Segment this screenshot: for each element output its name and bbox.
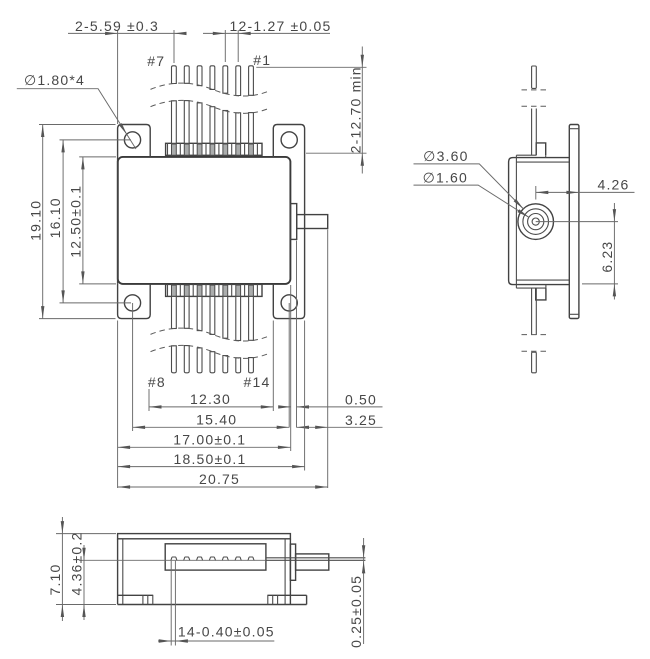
side flange step bottom xyxy=(569,313,579,315)
fiber ferrule xyxy=(297,215,328,229)
top break line 2 xyxy=(151,100,271,113)
side top pin tip xyxy=(532,66,537,88)
front foot lines left xyxy=(143,595,153,604)
side top pin break dashes xyxy=(522,90,548,106)
dim 4.36 +-0.2 xyxy=(69,532,86,621)
front snout xyxy=(290,544,295,580)
side lid edge line xyxy=(515,155,517,288)
front pin tips xyxy=(171,557,255,560)
front ferrule xyxy=(296,554,329,570)
dim 19.10 xyxy=(27,125,115,319)
svg-text:15.40: 15.40 xyxy=(196,412,237,428)
label diameter 1.60 xyxy=(414,169,530,218)
bottom break line 2 xyxy=(151,345,271,358)
dim 4.26 xyxy=(536,176,635,199)
top shoulder dividers xyxy=(168,143,258,155)
front flange bottom line xyxy=(118,604,307,606)
fiber exit center circle xyxy=(532,218,539,225)
svg-text:14-0.40±0.05: 14-0.40±0.05 xyxy=(178,623,275,639)
svg-text:6.23: 6.23 xyxy=(599,241,615,273)
svg-text:#1: #1 xyxy=(253,52,271,68)
top pins lower segments xyxy=(172,101,254,144)
label hole diameter 1.80*4 xyxy=(17,72,136,149)
svg-text:4.36±0.2: 4.36±0.2 xyxy=(69,532,85,596)
side top pin lower segment xyxy=(532,109,537,156)
svg-text:#7: #7 xyxy=(147,53,165,69)
dim 7.10 xyxy=(47,517,116,621)
svg-text:12.50±0.1: 12.50±0.1 xyxy=(67,185,83,258)
top pin shoulder xyxy=(166,143,262,155)
svg-text:20.75: 20.75 xyxy=(199,471,240,487)
front body outer sides xyxy=(118,539,291,605)
fiber exit circle d1.60 xyxy=(528,214,544,230)
svg-text:0.50: 0.50 xyxy=(345,391,377,407)
flange ear bottom-left xyxy=(118,284,151,319)
svg-text:2-12.70 min: 2-12.70 min xyxy=(348,66,364,153)
bottom pin shoulder xyxy=(166,284,262,296)
dim 2-12.70 min xyxy=(256,47,366,174)
dim 17.00 +-0.1 xyxy=(118,321,291,489)
svg-text:4.26: 4.26 xyxy=(597,176,629,192)
dim 14-0.40 +-0.05 xyxy=(158,561,275,646)
bottom pins lower segments xyxy=(172,346,254,373)
svg-text:2-5.59 ±0.3: 2-5.59 ±0.3 xyxy=(75,18,159,34)
side flange step top xyxy=(569,128,579,130)
dim 0.50 xyxy=(278,241,382,452)
svg-text:19.10: 19.10 xyxy=(27,200,43,241)
top shoulder pin bars xyxy=(172,144,254,155)
mounting hole bottom-left xyxy=(124,295,140,311)
fiber exit outer circle xyxy=(518,204,554,240)
mounting hole top-right xyxy=(281,132,297,148)
side bottom pin break dashes xyxy=(522,335,548,352)
dim 16.10 xyxy=(47,140,131,303)
front foot lines right xyxy=(268,595,278,604)
top pins upper segments xyxy=(172,66,254,96)
svg-text:#8: #8 xyxy=(148,374,166,390)
front flange top line xyxy=(118,594,307,596)
dim 18.50 +-0.1 xyxy=(118,321,305,471)
dim 12.50 +-0.1 xyxy=(67,157,116,284)
dim 6.23 xyxy=(536,203,618,300)
side body outline xyxy=(509,158,570,285)
side bottom pin tip xyxy=(532,352,537,373)
bottom pins upper segments xyxy=(172,296,254,340)
dim 3.25 xyxy=(297,230,383,489)
svg-text:∅3.60: ∅3.60 xyxy=(423,148,468,164)
top break line 1 xyxy=(151,83,271,96)
svg-text:3.25: 3.25 xyxy=(345,412,377,428)
dim 12-1.27 +-0.05 xyxy=(203,18,331,62)
dim 0.25 +-0.05 xyxy=(348,538,365,648)
front pin seat line xyxy=(79,559,266,561)
bottom shoulder dividers xyxy=(168,284,258,296)
mounting hole bottom-right xyxy=(281,295,297,311)
svg-text:12.30: 12.30 xyxy=(190,391,231,407)
flange ear top-left xyxy=(118,125,151,158)
fiber lines xyxy=(266,558,366,561)
front lid band xyxy=(118,534,291,539)
svg-text:12-1.27 ±0.05: 12-1.27 ±0.05 xyxy=(230,18,332,34)
bottom break line 1 xyxy=(151,328,271,341)
fiber snout xyxy=(290,204,296,240)
svg-text:∅1.80*4: ∅1.80*4 xyxy=(24,72,85,88)
dim 20.75 xyxy=(118,471,328,489)
mounting hole top-left xyxy=(124,132,140,148)
side top shoulder notch xyxy=(536,143,546,155)
front flange right end xyxy=(306,595,308,604)
dim 15.40 xyxy=(133,303,290,431)
front body inner sides xyxy=(123,539,285,605)
side bottom pin upper segment xyxy=(532,288,537,335)
label diameter 3.60 xyxy=(414,148,525,210)
lid outline xyxy=(118,157,291,284)
flange right side with ears xyxy=(273,125,304,319)
front pin recess xyxy=(165,544,266,570)
dim 2-5.59 +-0.3 xyxy=(68,18,187,124)
svg-text:0.25±0.05: 0.25±0.05 xyxy=(348,575,364,648)
svg-text:16.10: 16.10 xyxy=(47,197,63,238)
side top step line xyxy=(516,155,545,157)
side top inner line xyxy=(516,161,569,163)
svg-text:∅1.60: ∅1.60 xyxy=(423,169,468,185)
svg-text:17.00±0.1: 17.00±0.1 xyxy=(173,432,246,448)
side bottom shoulder notch xyxy=(536,288,546,300)
flange left edge xyxy=(117,157,119,284)
svg-text:18.50±0.1: 18.50±0.1 xyxy=(174,451,247,467)
side bottom step line xyxy=(516,285,546,289)
side flange bar xyxy=(569,125,579,319)
dim 12.30 xyxy=(149,321,273,412)
svg-text:#14: #14 xyxy=(244,374,271,390)
fiber exit circle 2 xyxy=(523,209,549,235)
side bottom inner line xyxy=(516,279,569,281)
svg-text:7.10: 7.10 xyxy=(47,563,63,595)
bottom shoulder pin bars xyxy=(172,285,254,296)
